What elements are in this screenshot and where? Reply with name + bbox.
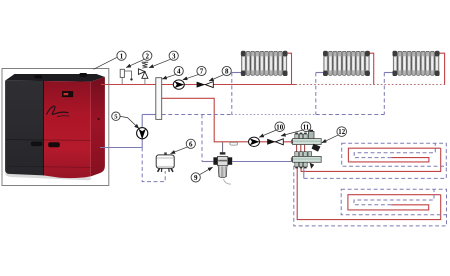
leader 7 (183, 75, 198, 80)
wire gray stem to filter (222, 142, 224, 152)
svg-text:7: 7 (200, 68, 204, 76)
small union on red floor line (230, 142, 238, 145)
boiler side dot (98, 118, 100, 120)
boiler logo script (47, 106, 69, 114)
wire red loop2 supply (297, 166, 441, 220)
svg-text:4: 4 (177, 68, 181, 76)
label 10 (275, 122, 285, 132)
wire blue boiler return (100, 147, 142, 149)
label 3 (169, 51, 178, 60)
wire blue drop radiator 1 return (231, 73, 233, 115)
leader 9 (200, 167, 213, 174)
wire red drop radiator 2 (370, 53, 374, 84)
wire blue expansion tank branch (142, 148, 165, 182)
leader 8 (209, 75, 223, 81)
wire blue loop1 return (303, 166, 305, 179)
wire red boiler to separator (101, 84, 155, 86)
label 7 (197, 66, 206, 75)
wire blue return dotted rad1 to rad2 (232, 114, 316, 116)
pump 5 (137, 128, 148, 140)
wire red loop1 supply (301, 148, 441, 171)
boiler photo frame (2, 69, 109, 186)
wire blue return dashed rad2 to rad3 (316, 114, 385, 116)
boiler chimney cap left (35, 75, 43, 78)
leader 3 (149, 59, 170, 68)
radiator 3 (393, 51, 440, 76)
leader 6 (171, 147, 188, 154)
wire red loop1 spiral (348, 148, 440, 162)
wire blue filter line right (232, 161, 292, 163)
wire blue pump5 vertical (141, 115, 143, 148)
wire red separator to radiators solid (162, 84, 296, 86)
boiler bottom seam (6, 139, 91, 142)
leader 10 (259, 130, 276, 137)
radiator 1 (241, 51, 288, 76)
svg-text:3: 3 (172, 52, 176, 60)
wire blue branch down to filter line (201, 115, 203, 162)
expansion tank 6 (156, 152, 174, 172)
filter unit 9 (213, 152, 232, 184)
label 1 (117, 51, 126, 60)
boiler red front panel (44, 81, 91, 178)
wire blue loop1 outer rect (342, 143, 447, 166)
boiler shadow (5, 174, 91, 181)
wire blue drop radiator 2 return (315, 73, 317, 115)
pump 10 (249, 137, 260, 146)
boiler handle left (31, 142, 43, 147)
pump 7 (173, 80, 184, 89)
label 6 (186, 139, 195, 148)
label 5 (112, 112, 120, 121)
label 12 (337, 127, 347, 137)
wire blue loop2 outer rect (341, 189, 446, 214)
boiler top face (5, 74, 105, 82)
svg-text:1: 1 (120, 52, 124, 60)
component 2 discharge vessel (120, 69, 133, 84)
wire blue stub radiator 2 (316, 72, 324, 74)
svg-text:6: 6 (189, 140, 193, 148)
svg-text:2: 2 (146, 52, 150, 60)
leader 11 (281, 130, 303, 136)
label 8 (222, 66, 231, 75)
boiler base seam (7, 166, 91, 167)
svg-text:11: 11 (303, 124, 310, 131)
boiler chimney cap right (80, 73, 87, 77)
wire red drop radiator 1 (287, 53, 291, 84)
label 2 (143, 51, 152, 60)
leader 5 (120, 116, 139, 128)
boiler center seam (43, 81, 45, 175)
wire red floor supply from separator (162, 98, 293, 142)
check valve 11 (267, 139, 283, 145)
radiator 2 (323, 51, 370, 76)
boiler control panel (62, 91, 73, 97)
svg-text:12: 12 (338, 129, 345, 136)
hydraulic separator 4 (156, 78, 162, 120)
wire blue stub radiator 3 (384, 72, 393, 74)
wire blue return dashed separator to rad1 (162, 114, 232, 116)
wire blue return left of separator (142, 114, 155, 116)
wire red drop radiator 3 (439, 53, 444, 84)
label 11 (301, 122, 311, 132)
label 4 (174, 66, 183, 75)
check valve 8 (197, 82, 214, 88)
wire red loop2 spiral (348, 195, 441, 210)
boiler handle right (48, 142, 60, 147)
leader 2 (126, 59, 144, 67)
svg-text:10: 10 (276, 124, 283, 131)
svg-text:9: 9 (194, 174, 198, 182)
leader 12 (322, 135, 339, 143)
wire blue loop1 inner (354, 143, 435, 157)
label 9 (191, 173, 200, 182)
svg-text:8: 8 (225, 68, 229, 76)
boiler right side face (91, 77, 105, 176)
boiler dark left column (5, 81, 43, 176)
leader 1 (94, 57, 118, 69)
wire red radiator supply dotted (296, 84, 445, 86)
wire blue loop2 inner (354, 189, 434, 205)
wire blue drop radiator 3 return (383, 73, 385, 115)
leader 4 (162, 75, 175, 79)
wire blue filter line left (202, 161, 214, 163)
manifold 12 (291, 130, 321, 169)
wire blue manifold down loop2 return (294, 166, 447, 226)
wire blue stub radiator 1 (232, 72, 241, 74)
component 3 safety valve (138, 62, 148, 84)
